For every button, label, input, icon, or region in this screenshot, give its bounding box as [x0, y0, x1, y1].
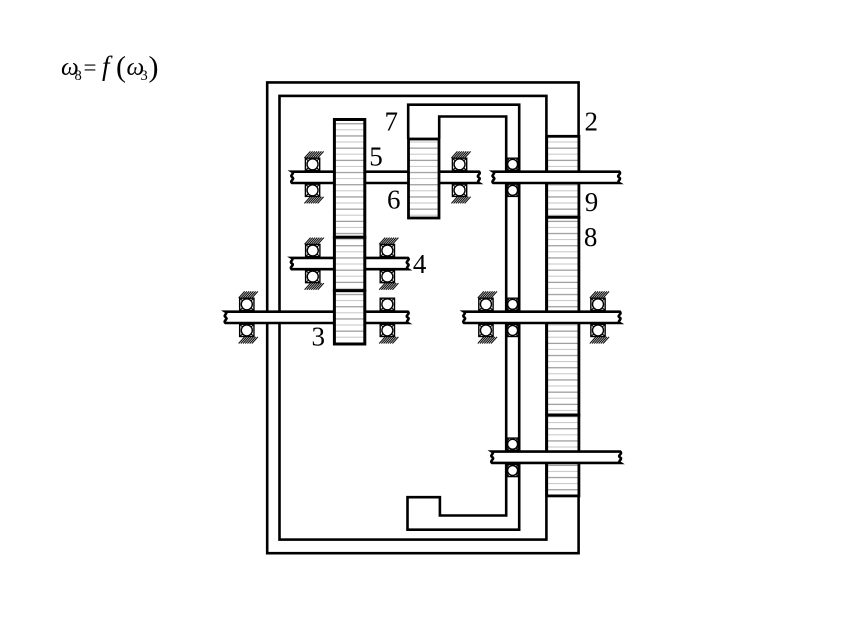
shaft middle (gear 4 shaft): [291, 258, 409, 269]
svg-text:5: 5: [369, 141, 383, 171]
carrier (frame with top bar, right arm, bottom foot): [408, 105, 520, 530]
svg-text:): ): [149, 51, 159, 84]
gear 5/3 column (left, 3 sections): [334, 120, 364, 238]
svg-text:=: =: [84, 55, 97, 80]
bearing F input shaft: [240, 298, 254, 310]
bearing G lower shaft right of gear 3: [380, 298, 394, 310]
shaft lower-left (input shaft 3): [225, 312, 409, 323]
svg-text:8: 8: [75, 68, 82, 84]
svg-text:(: (: [116, 51, 126, 84]
svg-text:7: 7: [385, 107, 399, 137]
svg-text:4: 4: [413, 249, 427, 279]
bearing I carrier arm lower shaft: [507, 298, 518, 310]
bearing A top shaft left: [305, 158, 319, 170]
svg-text:9: 9: [585, 187, 599, 217]
boundary gear2/9 vs 8: [545, 216, 580, 219]
bearing E mid shaft right: [380, 244, 394, 256]
shaft top-right (gear 2 shaft): [492, 172, 620, 183]
housing outer wall: [267, 82, 578, 553]
svg-text:8: 8: [584, 222, 598, 252]
shaft bottom-right (output 8): [491, 452, 621, 463]
svg-text:3: 3: [312, 322, 326, 352]
gear 2/9/8 column (right): [547, 136, 579, 496]
bearing D mid shaft left: [306, 244, 320, 256]
boundary gear8 vs bottom gear: [545, 414, 580, 417]
svg-text:3: 3: [141, 68, 148, 84]
housing inner wall: [280, 96, 547, 540]
bearing H lower-right shaft left of carrier: [479, 298, 493, 310]
shaft lower-right: [463, 312, 620, 323]
svg-text:2: 2: [585, 107, 599, 137]
bearing B top shaft right of gear 6: [452, 158, 466, 170]
shaft top-left (carrier input side): [291, 172, 479, 183]
bearing K carrier arm bottom shaft: [507, 438, 518, 450]
bearing J lower shaft right of gear 8: [591, 298, 605, 310]
formula w8 = f(w3): [61, 51, 159, 84]
bearing C carrier arm top shaft: [507, 158, 518, 170]
svg-text:6: 6: [387, 184, 401, 214]
gear 7/6 block: [409, 139, 440, 218]
